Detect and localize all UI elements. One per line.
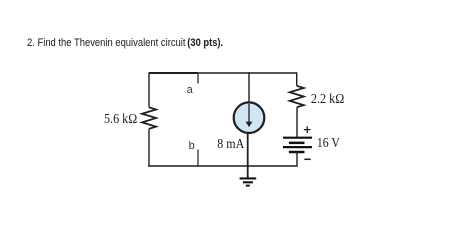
wire: thicker top-left segment to node a: [149, 72, 198, 74]
ground symbol bar 3: [246, 185, 250, 187]
wire: bottom rail from bottom-left corner to bottom-right corner: [148, 165, 297, 167]
wire: left vertical below resistor R1: [148, 129, 150, 167]
node a tick: [197, 73, 199, 84]
svg-text:(30 pts).: (30 pts).: [187, 37, 223, 49]
svg-text:5.6 kΩ: 5.6 kΩ: [104, 111, 137, 126]
svg-text:2.2 kΩ: 2.2 kΩ: [311, 91, 344, 106]
wire: top rail from top-left corner to top-right corner: [149, 72, 297, 74]
resistor R2 2.2 kOhm zigzag: [290, 86, 304, 108]
current source I1 arrowhead: [246, 122, 253, 128]
wire: right vertical above resistor R2: [296, 72, 298, 86]
battery V1 plus sign: [304, 126, 311, 133]
svg-text:2. Find the Thevenin equivalen: 2. Find the Thevenin equivalent circuit: [27, 37, 186, 49]
battery V1 plate 1 long (+): [283, 137, 312, 139]
wire: right vertical between resistor R2 and battery V1: [296, 107, 298, 137]
node b tick: [197, 150, 199, 167]
ground symbol bar 1: [240, 177, 257, 179]
ground symbol bar 2: [243, 181, 253, 183]
battery V1 plate 3 long: [283, 146, 312, 148]
current source I1 circle: [234, 102, 265, 133]
wire: middle branch from current source I1 through bottom rail to ground: [247, 133, 249, 178]
resistor R1 5.6 kOhm zigzag: [142, 107, 156, 129]
wire: left vertical above resistor R1: [148, 72, 150, 107]
battery V1 plate 2 short: [289, 142, 305, 145]
current source I1 arrow shaft: [248, 104, 250, 123]
svg-text:8 mA: 8 mA: [217, 136, 244, 151]
svg-text:16 V: 16 V: [317, 135, 340, 150]
wire: right vertical below battery V1: [296, 153, 298, 167]
battery V1 minus sign: [304, 158, 310, 160]
battery V1 plate 4 short (-): [289, 151, 305, 154]
svg-text:b: b: [189, 140, 195, 152]
svg-text:a: a: [187, 84, 194, 96]
wire: middle branch from top rail to current source I1: [248, 72, 250, 102]
